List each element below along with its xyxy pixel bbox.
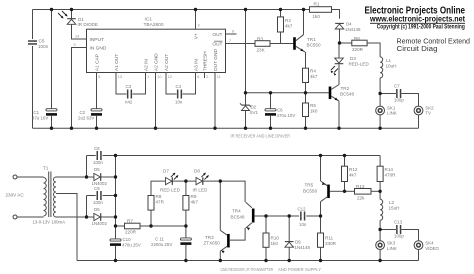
svg-text:10n: 10n [299,222,307,227]
svg-text:5: 5 [98,75,100,79]
svg-text:A2 GND: A2 GND [154,53,160,71]
svg-text:IR RECEIVER AND LINE DRIVER: IR RECEIVER AND LINE DRIVER [231,134,291,139]
svg-text:7: 7 [229,39,231,43]
svg-text:5V1: 5V1 [250,110,258,115]
svg-text:R12: R12 [349,167,358,172]
svg-text:D3: D3 [350,56,356,61]
svg-text:TV: TV [425,111,431,116]
svg-text:1N4148: 1N4148 [345,27,361,32]
svg-text:R3: R3 [257,36,263,41]
svg-text:BC556: BC556 [303,188,317,193]
svg-text:C3: C3 [126,84,132,89]
svg-text:OUT: OUT [212,32,222,38]
svg-text:2200u 25V: 2200u 25V [151,242,172,247]
svg-text:A1 CAP: A1 CAP [95,54,101,71]
svg-text:6: 6 [197,75,199,79]
svg-text:C4: C4 [176,84,182,89]
svg-text:R7: R7 [127,218,133,223]
svg-text:47R: 47R [156,200,165,205]
svg-text:R2: R2 [285,18,291,23]
svg-text:13-0-13V 100mA: 13-0-13V 100mA [33,219,66,224]
svg-text:AND POWER SUPPLY: AND POWER SUPPLY [278,267,322,272]
svg-text:3: 3 [198,24,200,28]
svg-text:R1: R1 [314,1,320,6]
svg-text:8: 8 [232,30,234,34]
svg-text:Circuit Diag: Circuit Diag [397,44,438,53]
svg-text:100p: 100p [394,233,404,238]
svg-text:VIDEO: VIDEO [425,246,439,251]
svg-text:470R: 470R [385,173,397,178]
svg-text:1k0: 1k0 [313,14,321,19]
svg-text:INPUT: INPUT [90,37,104,43]
svg-text:220R: 220R [352,47,364,52]
svg-text:D8: D8 [194,168,200,173]
svg-text:L2: L2 [389,200,395,205]
svg-text:TR5: TR5 [305,183,314,188]
svg-text:D7: D7 [163,168,169,173]
svg-text:LINK: LINK [387,246,397,251]
svg-text:4k7: 4k7 [191,200,199,205]
svg-text:D9: D9 [295,240,301,245]
svg-text:BC548: BC548 [231,214,245,219]
svg-text:IR LED: IR LED [193,188,208,193]
svg-text:D4: D4 [346,22,352,27]
svg-text:330R: 330R [325,241,337,246]
svg-text:RED LED: RED LED [160,188,181,193]
svg-text:T1: T1 [43,166,49,171]
svg-text:14: 14 [75,35,79,39]
svg-text:L1: L1 [386,58,392,63]
svg-text:R6: R6 [354,36,360,41]
svg-text:Copyright (c) 1991-2000 Paul S: Copyright (c) 1991-2000 Paul Stenning [377,25,465,31]
svg-text:R9: R9 [191,194,197,199]
svg-text:R8: R8 [156,194,162,199]
svg-text:n42: n42 [125,100,133,105]
svg-text:LINE RECEIVER, IR TRANSMITTER: LINE RECEIVER, IR TRANSMITTER [221,267,274,272]
svg-text:IR DIODE: IR DIODE [78,22,98,27]
svg-text:4k7: 4k7 [349,173,357,178]
svg-text:R5: R5 [310,103,316,108]
svg-text:R4: R4 [310,69,316,74]
svg-text:470u 10V: 470u 10V [277,113,296,118]
svg-text:100p: 100p [394,97,404,102]
svg-text:100n: 100n [93,160,103,165]
svg-text:23K: 23K [257,48,266,53]
svg-text:D5: D5 [94,167,100,172]
svg-text:R13: R13 [356,184,365,189]
svg-text:ZTX650: ZTX650 [204,241,221,246]
svg-text:R10: R10 [271,236,280,241]
svg-text:BC548: BC548 [340,92,354,97]
svg-text:OUT: OUT [212,41,222,47]
svg-text:22k: 22k [357,195,365,200]
svg-text:230V AC: 230V AC [6,193,25,198]
svg-text:TR1: TR1 [307,37,316,42]
svg-text:10: 10 [157,75,161,79]
svg-text:C9: C9 [94,186,100,191]
svg-text:10uH: 10uH [386,64,397,69]
svg-text:TR3: TR3 [205,235,214,240]
svg-text:RED-LED: RED-LED [349,62,370,67]
svg-text:2u2 63V: 2u2 63V [78,115,94,120]
svg-text:1k0: 1k0 [310,108,318,113]
svg-text:LINK: LINK [387,111,397,116]
svg-text:470u 25V: 470u 25V [122,242,141,247]
svg-text:TR4: TR4 [232,209,241,214]
svg-text:4k7: 4k7 [310,74,318,79]
svg-text:A3 IN: A3 IN [194,59,200,72]
svg-text:100n: 100n [93,200,103,205]
svg-text:220R: 220R [125,230,137,235]
svg-text:TBA2800: TBA2800 [144,22,164,28]
svg-text:1: 1 [147,75,149,79]
svg-text:1N4002: 1N4002 [92,221,108,226]
svg-text:47u 16V: 47u 16V [32,115,48,120]
svg-text:12: 12 [168,75,172,79]
svg-text:SK1: SK1 [387,105,396,110]
svg-text:R14: R14 [385,167,394,172]
svg-text:TR2: TR2 [341,86,350,91]
svg-text:4k7: 4k7 [285,24,293,29]
svg-text:SK3: SK3 [387,241,396,246]
svg-text:A1 OUT: A1 OUT [114,54,120,71]
svg-text:IC1: IC1 [145,17,153,23]
svg-text:D2: D2 [251,105,257,110]
svg-text:9: 9 [74,43,76,47]
svg-text:THRESH: THRESH [203,51,209,71]
svg-text:15uH: 15uH [389,206,400,211]
svg-text:100n: 100n [38,44,49,49]
svg-text:IN GND: IN GND [90,46,107,52]
svg-text:10n: 10n [175,100,183,105]
svg-text:C6: C6 [277,108,283,113]
svg-text:1N4148: 1N4148 [295,245,311,250]
svg-text:11: 11 [217,75,221,79]
svg-text:BC550: BC550 [307,43,321,48]
svg-text:OUT GND: OUT GND [213,49,219,72]
svg-text:C8: C8 [94,146,100,151]
svg-text:D6: D6 [94,207,100,212]
svg-text:A2 IN: A2 IN [144,59,150,72]
svg-text:SK4: SK4 [425,241,434,246]
svg-text:www.electronic-projects.net: www.electronic-projects.net [369,14,465,24]
svg-text:1k0: 1k0 [271,241,279,246]
svg-text:2: 2 [206,75,208,79]
svg-text:C7: C7 [394,84,400,89]
svg-text:SK2: SK2 [425,105,434,110]
svg-text:V+: V+ [194,33,200,39]
svg-text:C12: C12 [298,206,307,211]
svg-text:R11: R11 [325,236,334,241]
svg-text:13: 13 [118,75,122,79]
svg-text:C13: C13 [394,220,403,225]
svg-text:A2 OUT: A2 OUT [164,54,170,71]
